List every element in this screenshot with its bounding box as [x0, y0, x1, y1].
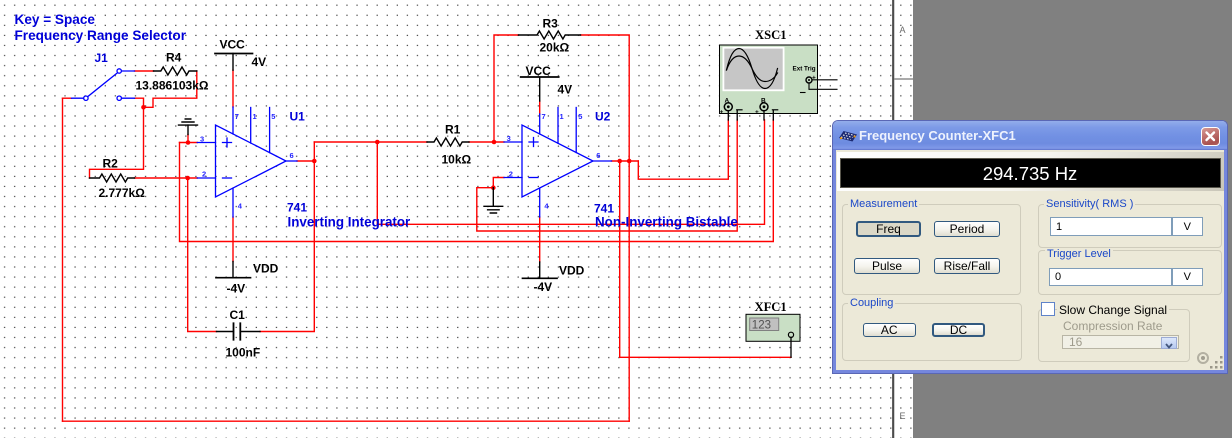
junction U2 output node 2	[627, 159, 632, 164]
power VCC U1	[215, 54, 253, 71]
resistor R4	[154, 67, 197, 75]
wire R1 line left	[314, 141, 427, 143]
svg-text:1: 1	[560, 112, 564, 121]
wire U1 pin7 to VCC	[232, 70, 234, 107]
svg-text:R2: R2	[103, 157, 119, 171]
wire node to R2	[90, 107, 144, 178]
svg-text:Non-Inverting Bistable: Non-Inverting Bistable	[595, 215, 738, 230]
svg-text:1: 1	[253, 112, 257, 121]
wire U2 output to XFC1	[620, 161, 791, 357]
svg-text:3: 3	[200, 135, 204, 144]
svg-text:2: 2	[509, 169, 513, 178]
junction U2 output node 1	[617, 159, 622, 164]
wire switch throw 2 stub	[135, 98, 144, 107]
Frequency Counter dialog window	[833, 121, 1227, 373]
svg-text:E: E	[900, 411, 906, 421]
Measurement group	[842, 204, 1021, 295]
Coupling group	[842, 303, 1022, 361]
svg-text:U1: U1	[290, 110, 306, 124]
switch J1	[72, 69, 135, 101]
wire U2 inverting stub	[493, 178, 504, 188]
junction switch node	[141, 105, 146, 110]
svg-text:J1: J1	[95, 51, 109, 65]
ground U1	[179, 119, 198, 135]
pin labels U2	[507, 112, 601, 211]
Sensitivity group	[1038, 204, 1222, 248]
junction U1 output node	[312, 159, 317, 164]
svg-text:5: 5	[578, 112, 582, 121]
op-amp U1	[197, 107, 297, 217]
svg-text:Inverting Integrator: Inverting Integrator	[288, 215, 412, 230]
junction U2 plus node	[492, 140, 497, 145]
svg-text:741: 741	[594, 202, 614, 216]
power VDD U2	[523, 262, 558, 278]
wire U1 pin4 to VDD	[232, 217, 234, 262]
svg-text:Frequency Range Selector: Frequency Range Selector	[15, 28, 187, 43]
svg-text:Key = Space: Key = Space	[15, 12, 96, 27]
svg-text:-4V: -4V	[227, 282, 246, 296]
svg-text:VCC: VCC	[220, 38, 246, 52]
power VCC U2	[521, 77, 559, 101]
wire U2 pin7 to VCC	[539, 101, 541, 114]
ground U2	[484, 188, 503, 213]
pin labels U1	[200, 112, 294, 211]
wire U1 feedback to scope B plus	[377, 120, 764, 224]
svg-text:Ext Trig: Ext Trig	[793, 66, 816, 73]
resistor R2	[90, 174, 135, 182]
wire R4 left lead red	[135, 70, 154, 72]
resistor R3	[519, 31, 581, 39]
wire R1 right to U2 plus	[469, 141, 504, 143]
svg-text:VDD: VDD	[253, 262, 279, 276]
svg-text:U2: U2	[595, 110, 611, 124]
wire U1 ground stem red	[187, 135, 189, 143]
resize grip	[1210, 356, 1224, 370]
svg-text:7: 7	[542, 112, 546, 121]
junction U2 ground node	[491, 185, 496, 190]
svg-text:4V: 4V	[252, 55, 267, 69]
svg-text:XFC1: XFC1	[755, 300, 787, 314]
svg-text:VDD: VDD	[559, 264, 585, 278]
svg-text:3: 3	[507, 134, 511, 143]
svg-text:VCC: VCC	[526, 64, 552, 78]
resistor R1	[427, 138, 469, 146]
sheet border line	[892, 0, 894, 438]
svg-text:2.777kΩ: 2.777kΩ	[99, 186, 146, 200]
junction U1 minus node	[185, 176, 190, 181]
svg-text:-4V: -4V	[534, 280, 553, 294]
svg-text:741: 741	[287, 201, 307, 215]
capacitor C1	[217, 323, 261, 339]
wire switch pole to left rail	[63, 97, 72, 99]
wire U1 noninverting node	[180, 142, 198, 144]
svg-text:+: +	[812, 75, 816, 82]
decoration circle	[1197, 352, 1209, 364]
wire U1 inverting node down to C1 left	[188, 178, 217, 332]
svg-text:R4: R4	[166, 51, 182, 65]
op-amp U2	[504, 108, 612, 218]
junction U1 plus node	[186, 140, 191, 145]
wire bottom rail horizontal	[63, 420, 630, 422]
wire R2 to U1 inverting input	[135, 177, 198, 179]
svg-text:100nF: 100nF	[226, 346, 261, 360]
sheet canvas	[0, 0, 892, 438]
svg-text:123: 123	[752, 320, 771, 332]
wire U2 pin4 to VDD	[539, 217, 541, 262]
svg-text:R1: R1	[445, 123, 461, 137]
svg-text:+: +	[720, 109, 724, 116]
svg-text:6: 6	[596, 151, 600, 160]
wire U2 output to scope A plus	[638, 120, 728, 179]
frequency counter XFC1	[746, 314, 800, 357]
wire U1 output stub	[297, 160, 314, 162]
wire R4 right loop	[144, 71, 197, 107]
svg-text:13.886103kΩ: 13.886103kΩ	[136, 79, 209, 93]
sheet zone strip	[894, 0, 913, 438]
wire C1 right to U1 output	[260, 161, 314, 332]
wire left rail vertical	[62, 98, 64, 421]
svg-text:+: +	[755, 109, 759, 116]
svg-text:C1: C1	[230, 308, 246, 322]
power VDD U1	[216, 262, 251, 278]
svg-text:20kΩ: 20kΩ	[540, 41, 570, 55]
svg-text:5: 5	[271, 112, 275, 121]
Trigger Level group	[1038, 250, 1222, 295]
wire U2 output stub red	[612, 160, 639, 162]
Slow Change group	[1038, 309, 1190, 362]
svg-text:XSC1: XSC1	[755, 28, 787, 42]
junction R1 line node	[375, 140, 380, 145]
svg-text:4V: 4V	[558, 83, 573, 97]
svg-text:2: 2	[202, 169, 206, 178]
wire U1 output up to R1 line	[313, 142, 315, 161]
wire R3 loop right	[581, 35, 630, 161]
zone divider	[894, 79, 913, 80]
wire ground loop to scope B minus	[180, 120, 774, 242]
wire bottom rail to U2 output vertical	[628, 161, 630, 421]
svg-text:R3: R3	[543, 17, 559, 31]
oscilloscope XSC1	[720, 45, 838, 120]
svg-text:7: 7	[235, 112, 239, 121]
svg-text:A: A	[900, 25, 906, 35]
svg-text:6: 6	[290, 151, 294, 160]
wire R3 loop left	[494, 35, 519, 142]
svg-text:10kΩ: 10kΩ	[442, 153, 472, 167]
wire U2 ground node to scope A minus	[477, 120, 737, 231]
